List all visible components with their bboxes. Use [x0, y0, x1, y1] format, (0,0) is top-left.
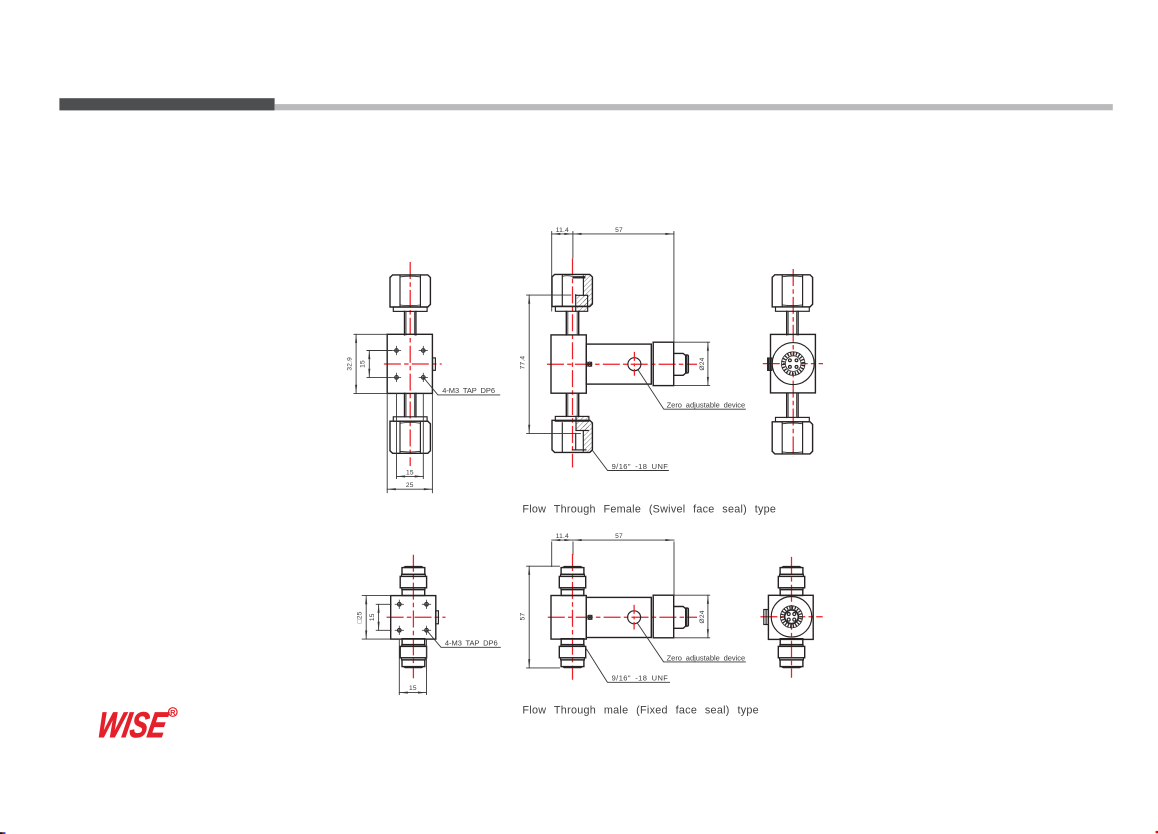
tap hole A3: [392, 373, 401, 382]
svg-text:R: R: [170, 708, 176, 717]
body block B: [551, 335, 586, 393]
connector B: [674, 353, 689, 375]
stem bottom B: [566, 393, 578, 416]
header light bar: [275, 104, 1113, 110]
connector pins C: [789, 359, 792, 362]
knurled ring F: [780, 606, 802, 628]
connector pins F: [787, 613, 790, 616]
transmitter cylinder B: [586, 344, 651, 384]
male fitting bottom F: [778, 639, 804, 669]
WISE logo: [94, 705, 177, 745]
swivel nut bottom B (sectioned): [552, 416, 592, 452]
male fitting bottom D: [400, 639, 426, 669]
svg-text:11.4: 11.4: [556, 533, 569, 540]
dimension square25 left D: [357, 596, 391, 640]
dimension 11.4 / 57 top E: [552, 533, 674, 595]
svg-text:57: 57: [615, 533, 623, 540]
centerline vertical F: [791, 557, 793, 678]
view F: flow-through male, end view: [760, 557, 822, 678]
transmitter cap E: [653, 595, 674, 638]
label Zero adjustable device (E): [637, 623, 745, 662]
male fitting top E: [559, 566, 585, 596]
centerline horizontal E: [548, 616, 697, 618]
side tab C: [768, 358, 772, 370]
view E: flow-through male, sectional side view: [520, 533, 746, 683]
tap hole A4: [419, 373, 428, 382]
centerline horizontal B: [547, 363, 697, 365]
svg-text:9/16" -18 UNF: 9/16" -18 UNF: [612, 462, 669, 471]
svg-text:15: 15: [406, 469, 414, 476]
tap hole D3: [395, 626, 404, 635]
transmitter cylinder E: [586, 597, 651, 637]
svg-text:32.9: 32.9: [347, 357, 354, 371]
zero adjust circle B: [628, 358, 641, 371]
transmitter cap B: [653, 342, 674, 385]
body block D: [391, 596, 436, 640]
svg-text:Flow Through Female (Swivel fa: Flow Through Female (Swivel face seal) t…: [522, 504, 776, 516]
svg-text:Flow Through male (Fixed face: Flow Through male (Fixed face seal) type: [522, 705, 758, 717]
tap hole D1: [395, 600, 404, 609]
hole centerline extensions A: [396, 393, 398, 478]
centerline horizontal D: [387, 616, 446, 618]
zero adjust circle E: [628, 611, 641, 624]
side tab D: [436, 611, 439, 624]
male fitting top F: [778, 566, 804, 596]
svg-text:25: 25: [406, 482, 414, 489]
svg-text:77.4: 77.4: [520, 356, 527, 370]
dimension D24 right B: [674, 342, 710, 385]
tap hole D2: [422, 600, 431, 609]
svg-text:Ø24: Ø24: [699, 610, 706, 623]
label 9/16-18 UNF (E): [586, 648, 670, 683]
swivel nut bottom C: [772, 394, 812, 454]
label Zero adjustable device (B): [638, 370, 746, 410]
side tab A: [433, 358, 436, 370]
centerline horizontal C: [763, 363, 823, 365]
svg-text:□25: □25: [357, 611, 364, 623]
view B: flow-through female, sectional side view: [520, 227, 746, 471]
male fitting bottom E: [559, 639, 585, 669]
svg-text:15: 15: [409, 685, 417, 692]
centerline horizontal A: [384, 363, 442, 365]
swivel nut top C: [772, 275, 812, 335]
label 4-M3 TAP DP6 (A): [424, 378, 500, 395]
svg-text:11.4: 11.4: [556, 227, 569, 234]
svg-text:57: 57: [615, 227, 623, 234]
swivel nut bottom A: [390, 393, 430, 453]
centerline vertical B: [572, 259, 574, 468]
dimension 15 left A: [360, 351, 392, 378]
screw B: [588, 362, 592, 366]
svg-text:57: 57: [520, 613, 527, 621]
body block A: [387, 334, 432, 393]
svg-text:4-M3 TAP DP6: 4-M3 TAP DP6: [445, 638, 498, 647]
dimension 15 bottom A: [397, 469, 424, 476]
centerline horizontal F: [760, 616, 822, 618]
knurled ring C: [781, 352, 805, 376]
artifact dot bottom-right: [1156, 831, 1158, 833]
swivel nut top B (sectioned): [552, 274, 592, 311]
view C: flow-through female, end view: [763, 269, 823, 457]
tap hole A2: [419, 346, 428, 355]
svg-text:15: 15: [360, 360, 367, 368]
body block F: [768, 595, 813, 639]
tap hole A1: [392, 346, 401, 355]
svg-text:Ø24: Ø24: [699, 357, 706, 370]
dimension 32.9: [347, 334, 388, 393]
side tab F: [764, 610, 769, 625]
dimension D24 right E: [674, 595, 710, 638]
dimension 25 bottom A: [387, 393, 432, 492]
view D: flow-through male, front view: [357, 555, 501, 695]
stem top B: [566, 311, 578, 335]
svg-text:15: 15: [369, 613, 376, 621]
connector face outer circle C: [772, 343, 814, 385]
centerline vertical E: [572, 554, 574, 680]
svg-text:Zero adjustable device: Zero adjustable device: [667, 401, 746, 410]
label 9/16-18 UNF (B): [593, 451, 669, 471]
male fitting top D: [400, 566, 426, 596]
artifact mark bottom-left: [0, 832, 6, 834]
tap hole D4: [422, 626, 431, 635]
dimension 77.4 left B: [520, 295, 581, 433]
centerline vertical A: [409, 262, 411, 466]
centerline vertical C: [792, 269, 794, 457]
swivel nut top A: [390, 275, 430, 335]
connector E: [674, 607, 689, 629]
centerline vertical D: [412, 555, 414, 679]
svg-text:Zero adjustable device: Zero adjustable device: [667, 653, 746, 662]
label 4-M3 TAP DP6 (D): [427, 631, 500, 647]
svg-text:9/16" -18 UNF: 9/16" -18 UNF: [612, 674, 669, 683]
dimension 15 bottom D: [399, 639, 426, 695]
dimension 11.4 / 57 top B: [552, 227, 674, 342]
svg-text:WISE: WISE: [94, 705, 171, 745]
header dark bar: [59, 98, 274, 110]
view A: flow-through female, front view: [347, 262, 500, 493]
svg-text:4-M3 TAP DP6: 4-M3 TAP DP6: [442, 386, 495, 395]
dimension 15 left D: [369, 604, 391, 630]
screw E: [588, 615, 592, 619]
connector face outer circle F: [771, 597, 812, 638]
body block C: [771, 334, 816, 393]
body block E: [551, 596, 586, 640]
dimension 57 left E: [520, 566, 560, 668]
